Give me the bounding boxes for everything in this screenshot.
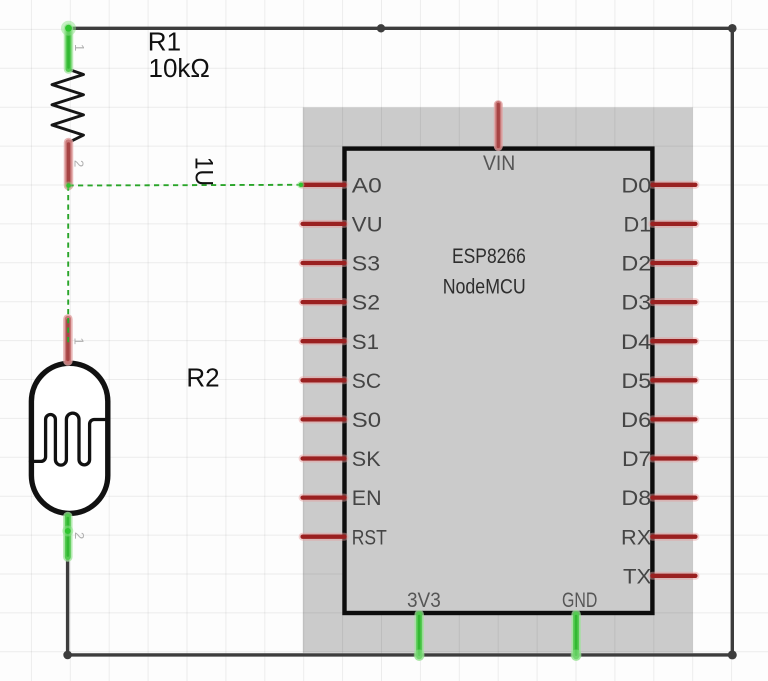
svg-text:S1: S1 — [352, 331, 379, 354]
svg-text:VIN: VIN — [483, 152, 515, 175]
left pins A0 VU S3 S2 S1 SC S0 SK EN RST — [303, 185, 345, 537]
svg-text:SC: SC — [352, 370, 381, 393]
photoresistor R2 capsule body — [31, 363, 107, 513]
svg-text:RX: RX — [621, 526, 651, 549]
wire corner dot top-right — [728, 24, 737, 33]
svg-text:D1: D1 — [624, 214, 652, 237]
wire junction dot bottom-right — [728, 650, 737, 659]
ratsnest end dot at A0 — [297, 181, 304, 188]
wire bendpoint dot on top wire — [377, 24, 385, 32]
R2 serpentine track — [31, 413, 106, 465]
svg-text:D8: D8 — [621, 487, 651, 510]
svg-text:D3: D3 — [621, 292, 651, 315]
ESP8266 NodeMCU U1 body — [345, 149, 653, 613]
R2 pin 2 (green, bottom) — [62, 517, 73, 558]
3V3 pin (bottom, green connected) — [414, 615, 425, 661]
svg-text:2: 2 — [71, 160, 86, 167]
ratsnest dashed wire horizontal to A0 — [69, 184, 301, 187]
svg-text:A0: A0 — [352, 174, 382, 197]
svg-text:RST: RST — [352, 526, 387, 549]
svg-text:EN: EN — [352, 487, 382, 510]
svg-text:D4: D4 — [621, 331, 652, 354]
svg-text:D5: D5 — [621, 370, 651, 393]
svg-text:S2: S2 — [352, 292, 380, 315]
R1 pin 1 (green, connected) — [61, 21, 76, 69]
ratsnest junction dot — [65, 182, 73, 190]
svg-text:TX: TX — [623, 565, 651, 588]
svg-text:R1: R1 — [148, 27, 181, 57]
resistor R1 zigzag body — [52, 69, 84, 142]
part backdrop U1 gray area — [303, 107, 693, 652]
GND pin (bottom, green connected) — [571, 615, 582, 661]
pin labels left — [352, 174, 387, 549]
svg-text:D2: D2 — [621, 253, 651, 276]
svg-text:1: 1 — [72, 44, 87, 51]
svg-text:SK: SK — [352, 448, 381, 471]
svg-text:1U: 1U — [190, 157, 218, 186]
svg-text:GND: GND — [562, 589, 597, 612]
VIN pin (top, red) — [494, 104, 503, 147]
svg-text:2: 2 — [72, 532, 87, 539]
svg-text:10kΩ: 10kΩ — [149, 53, 210, 83]
svg-text:ESP8266: ESP8266 — [452, 245, 526, 268]
svg-text:R2: R2 — [186, 363, 219, 393]
svg-text:3V3: 3V3 — [407, 589, 441, 612]
wire: main loop (top, right, bottom, left-up to LDR) — [68, 28, 733, 655]
svg-text:1: 1 — [72, 338, 87, 345]
pin labels right — [621, 174, 652, 588]
svg-text:NodeMCU: NodeMCU — [443, 276, 526, 299]
wire corner dot bottom-left — [63, 651, 72, 660]
svg-text:VU: VU — [352, 214, 383, 237]
R2 pin1 dashed overlay — [67, 318, 69, 345]
right pins D0-D8 RX TX — [652, 185, 695, 576]
R1 pin 2 (red, unconnected end) — [64, 143, 74, 186]
svg-text:S0: S0 — [352, 409, 381, 432]
svg-text:D0: D0 — [621, 174, 651, 197]
svg-text:D7: D7 — [622, 448, 651, 471]
svg-text:S3: S3 — [352, 253, 380, 276]
ratsnest dashed wire vertical to R2 pin1 — [67, 186, 69, 346]
R2 pin 1 (red, top) — [63, 319, 73, 361]
svg-text:D6: D6 — [621, 409, 651, 432]
